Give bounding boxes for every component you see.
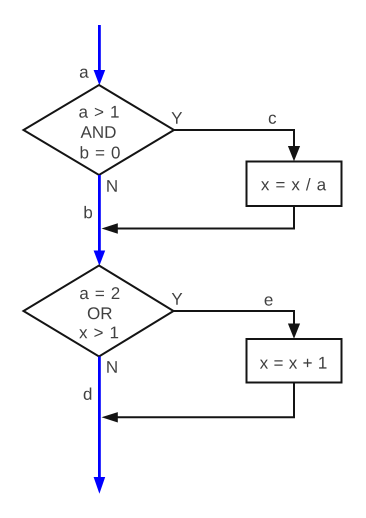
D2 text line 3: "x > 1" — [79, 327, 118, 339]
label Y (D1 true): "Y" — [172, 112, 183, 124]
label N (D1 false): "N" — [107, 180, 117, 192]
wire: blue main line from D1 to D2 — [98, 175, 101, 252]
label N (D2 false): "N" — [107, 361, 117, 373]
node d label: "d" — [84, 388, 92, 401]
arrowhead into second decision (blue) — [94, 251, 106, 266]
process box 2: x = x + 1 — [247, 339, 342, 383]
decision D2: a = 2 OR x > 1 — [24, 266, 174, 357]
arrowhead merging into main line at b — [102, 223, 118, 233]
box1 text: "x = x / a" — [261, 178, 326, 191]
node c label: "c" — [269, 115, 276, 124]
label Y (D2 true): "Y" — [172, 293, 183, 305]
node b label: "b" — [84, 206, 92, 219]
node a label: "a" — [80, 69, 89, 78]
D2 text line 1: "a = 2" — [80, 287, 119, 299]
arrowhead into first decision (blue) — [94, 70, 106, 85]
node e label: "e" — [265, 296, 273, 305]
arrowhead into process box 2 — [288, 324, 300, 339]
D1 text line 1: "a > 1" — [79, 106, 118, 118]
wire: blue exit line from D2 — [98, 357, 101, 479]
wire: box 1 back to main line — [117, 206, 294, 229]
box2 text: "x = x + 1" — [260, 357, 327, 369]
wire: entry blue line into first decision — [98, 25, 101, 71]
wire: D1 true branch toward box 1 — [174, 130, 294, 147]
D1 text line 3: "b = 0" — [81, 146, 120, 159]
exit arrowhead (blue) — [94, 477, 106, 494]
D2 text line 2: "OR" — [88, 307, 112, 319]
wire: box 2 back to main line — [117, 383, 294, 418]
decision D1: a > 1 AND b = 0 — [24, 85, 175, 175]
wire: D2 true branch toward box 2 — [174, 311, 295, 324]
process box 1: x = x / a — [247, 162, 342, 207]
arrowhead merging into main line at d — [102, 412, 118, 422]
arrowhead into process box 1 — [288, 146, 300, 161]
D1 text line 2: "AND" — [81, 126, 116, 138]
